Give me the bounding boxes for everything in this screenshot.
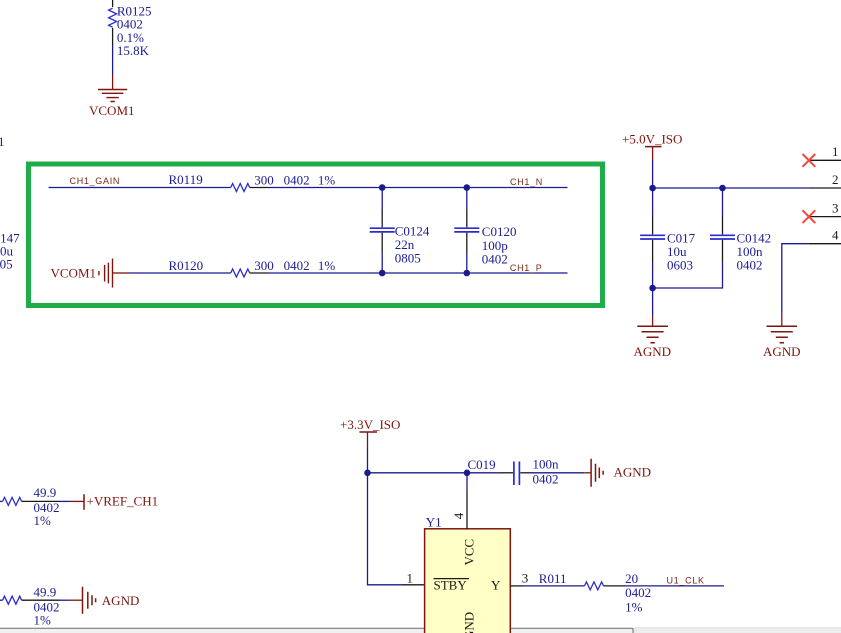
svg-text:VCOM1: VCOM1 [51, 265, 97, 280]
connector pin 3 [808, 201, 841, 217]
svg-text:3: 3 [832, 201, 839, 216]
svg-text:C0120: C0120 [482, 224, 517, 239]
svg-text:AGND: AGND [763, 344, 801, 359]
power +5.0V_ISO [622, 132, 682, 161]
wire (+5.0V_ISO down to node) [652, 160, 654, 188]
svg-text:1: 1 [407, 571, 414, 586]
power VCOM1 (sideways) [51, 259, 129, 288]
svg-text:1%: 1% [318, 258, 336, 273]
capacitor C017 [640, 188, 696, 288]
svg-text:3: 3 [522, 571, 529, 586]
svg-text:0805: 0805 [395, 251, 421, 266]
svg-text:0402: 0402 [533, 472, 559, 487]
svg-text:+VREF_CH1: +VREF_CH1 [87, 493, 159, 508]
wire (R0119 pin stub) [250, 187, 268, 189]
svg-text:CH1_N: CH1_N [510, 177, 543, 187]
svg-text:GND: GND [461, 612, 476, 633]
svg-text:CH1_P: CH1_P [510, 263, 543, 273]
junction [379, 184, 386, 191]
wire (top feed into R0125) [112, 0, 114, 7]
svg-text:15.8K: 15.8K [117, 43, 150, 58]
power +VREF_CH1 [70, 493, 159, 510]
svg-text:CH1_GAIN: CH1_GAIN [70, 176, 121, 186]
resistor R (49.9 to +VREF_CH1) [0, 485, 70, 528]
oscillator U Y1 (body) [425, 515, 511, 633]
svg-text:49.9: 49.9 [34, 485, 57, 500]
svg-text:0402: 0402 [284, 258, 310, 273]
junction [464, 470, 471, 477]
ground AGND (left) [634, 326, 672, 359]
wire (pin 4 stub) [466, 473, 468, 491]
wire (R0120 pin stub) [250, 272, 268, 274]
svg-text:1: 1 [832, 144, 839, 159]
junction [379, 270, 386, 277]
svg-text:2: 2 [832, 172, 839, 187]
capacitor C019 [467, 457, 584, 487]
svg-text:0402: 0402 [625, 585, 651, 600]
capacitor C0120 [454, 188, 516, 274]
no-connect X pin 1 [803, 154, 816, 167]
svg-text:0603: 0603 [667, 258, 693, 273]
wire (CH1_GAIN to R0119) [49, 187, 231, 189]
svg-text:100n: 100n [533, 457, 560, 472]
svg-text:1%: 1% [625, 600, 643, 615]
wire (node down to STBY, pin 1) [368, 473, 403, 585]
capacitor C0142 [653, 188, 772, 288]
svg-text:+5.0V_ISO: +5.0V_ISO [622, 132, 682, 147]
junction [464, 270, 471, 277]
ground AGND (sideways, bottom left) [70, 587, 140, 614]
wire (node to C019) [368, 472, 468, 474]
svg-text:0805: 0805 [0, 257, 13, 272]
capacitor C0124 [370, 188, 430, 274]
svg-text:4: 4 [832, 228, 839, 243]
connector pin 2 [808, 172, 841, 188]
svg-text:4: 4 [451, 512, 466, 519]
svg-text:0402: 0402 [737, 258, 763, 273]
ground VCOM1 [89, 90, 135, 119]
wire (R0120 to CH1_P) [268, 272, 568, 274]
svg-text:49.9: 49.9 [34, 584, 57, 599]
wire (R011 to U1_CLK) [625, 585, 724, 587]
wire (R011 pin stub) [604, 585, 626, 587]
svg-text:VCC: VCC [461, 539, 476, 566]
resistor R0125 [109, 3, 152, 58]
junction [649, 285, 656, 292]
power +3.3V_ISO [340, 417, 400, 447]
svg-text:300: 300 [254, 172, 273, 187]
wire (R0119 to CH1_N) [268, 187, 568, 189]
svg-text:+3.3V_ISO: +3.3V_ISO [340, 417, 400, 432]
junction [464, 184, 471, 191]
junction [649, 185, 656, 192]
wire (node down to AGND) [652, 288, 654, 316]
svg-text:1: 1 [0, 134, 5, 149]
bottom window edge bar left [0, 628, 633, 633]
svg-text:1%: 1% [318, 172, 336, 187]
svg-text:1%: 1% [34, 513, 52, 528]
connector pin 4 [808, 228, 841, 244]
svg-text:R0120: R0120 [169, 258, 204, 273]
svg-text:0402: 0402 [482, 252, 508, 267]
bottom window edge bar right [634, 628, 841, 633]
junction [364, 470, 371, 477]
ground AGND (sideways, after C019) [584, 459, 651, 487]
wire (R0125 to ground) [112, 28, 114, 45]
svg-text:AGND: AGND [614, 465, 652, 480]
svg-text:Y: Y [491, 578, 501, 593]
resistor R0120 [169, 258, 336, 277]
green highlight box [29, 164, 603, 306]
resistor R (49.9 to AGND) [0, 584, 70, 627]
svg-text:1%: 1% [34, 612, 52, 627]
svg-text:0402: 0402 [284, 172, 310, 187]
junction [719, 185, 726, 192]
connector pin 1 [808, 144, 841, 160]
svg-text:20: 20 [625, 571, 638, 586]
svg-text:AGND: AGND [634, 344, 672, 359]
svg-text:C019: C019 [468, 457, 496, 472]
svg-text:STBY: STBY [434, 578, 468, 593]
resistor R011 [539, 571, 651, 615]
svg-text:Y1: Y1 [426, 515, 442, 530]
wire (pin 3 to R011) [524, 585, 585, 587]
wire (+3.3V_ISO down) [367, 447, 369, 473]
svg-text:VCOM1: VCOM1 [89, 103, 135, 118]
svg-text:300: 300 [254, 258, 273, 273]
pin name STBY (with overline) [434, 578, 470, 593]
no-connect X pin 3 [803, 210, 816, 223]
svg-text:U1_CLK: U1_CLK [667, 576, 705, 586]
resistor R0119 [169, 172, 336, 192]
capacitor C0147 labels (cut at left edge) [0, 231, 20, 272]
svg-text:R0119: R0119 [169, 172, 203, 187]
wire (pin 4 to AGND) [782, 244, 809, 314]
ground AGND (right) [763, 326, 801, 359]
svg-text:R011: R011 [539, 571, 567, 586]
wire (pin 3 stub) [510, 585, 523, 587]
svg-text:AGND: AGND [102, 593, 140, 608]
wire (node to pin 2) [653, 187, 809, 189]
wire (VCOM1 to R0120) [129, 272, 231, 274]
